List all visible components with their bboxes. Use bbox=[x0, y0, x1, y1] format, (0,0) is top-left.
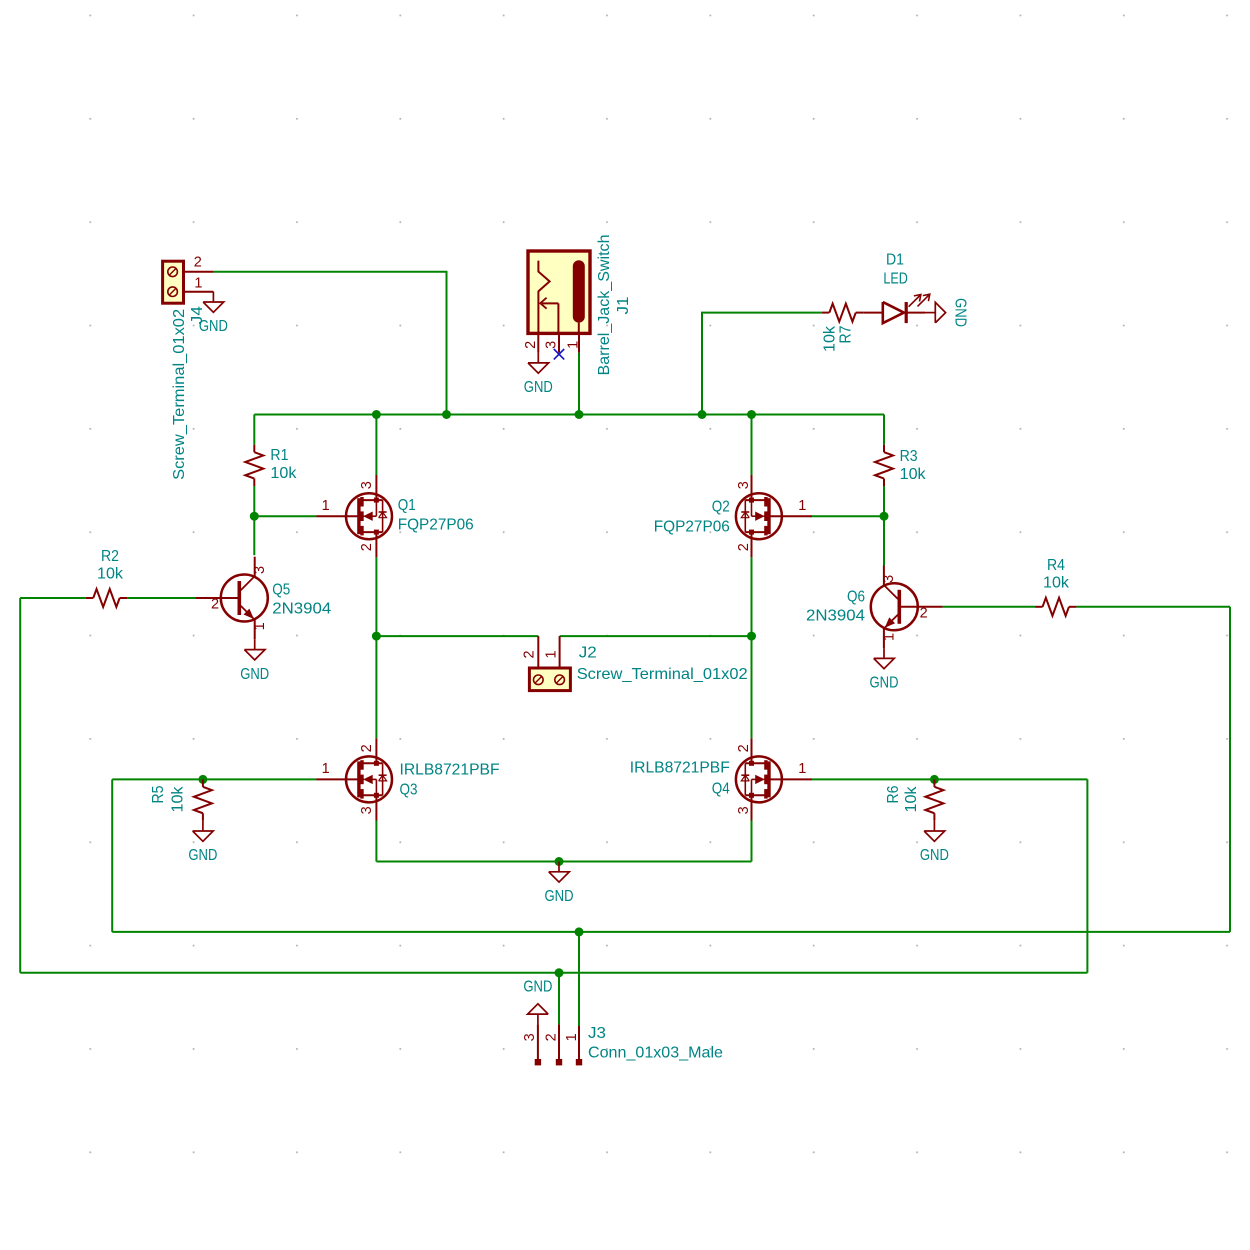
svg-text:R2: R2 bbox=[101, 548, 119, 565]
svg-text:2: 2 bbox=[523, 341, 539, 349]
junction right half-bridge/J2 pin1 bbox=[747, 632, 756, 641]
resistor R2 bbox=[86, 548, 127, 607]
svg-text:2N3904: 2N3904 bbox=[272, 601, 331, 618]
wire R4 to right edge bbox=[1076, 606, 1230, 608]
wire R3 to right gate node bbox=[883, 486, 885, 516]
svg-text:3: 3 bbox=[736, 806, 752, 814]
transistor Q3 IRLB8721PBF bbox=[316, 738, 392, 820]
junction R1/Q1 gate/Q5 collector bbox=[250, 512, 259, 521]
wire J2 pin1 to right mid node bbox=[560, 635, 752, 637]
svg-text:Conn_01x03_Male: Conn_01x03_Male bbox=[588, 1045, 723, 1062]
wire Q1 source to mid node bbox=[375, 557, 377, 636]
svg-text:2: 2 bbox=[211, 597, 219, 613]
svg-text:Q2: Q2 bbox=[712, 499, 730, 516]
wire J1 pin1 to bus bbox=[578, 353, 580, 415]
transistor Q6 2N3904 bbox=[871, 566, 943, 649]
resistor R7 bbox=[822, 304, 864, 352]
ground (J1) bbox=[528, 353, 549, 374]
svg-text:GND: GND bbox=[952, 298, 969, 327]
svg-text:3: 3 bbox=[359, 481, 375, 489]
wire Q6 base to R4 bbox=[943, 606, 1036, 608]
resistor R1 bbox=[245, 445, 297, 486]
junction bus/J4 feed bbox=[442, 410, 451, 419]
wire bus to Q2 drain bbox=[751, 415, 753, 476]
resistor R3 bbox=[875, 445, 927, 486]
svg-text:R6: R6 bbox=[885, 785, 902, 803]
svg-text:IRLB8721PBF: IRLB8721PBF bbox=[630, 760, 730, 777]
wire VCC top bus bbox=[254, 414, 884, 416]
svg-text:10k: 10k bbox=[822, 325, 839, 352]
svg-text:GND: GND bbox=[920, 847, 949, 864]
svg-text:10k: 10k bbox=[900, 466, 927, 483]
wire Q4 source to GND rail bbox=[751, 821, 753, 862]
svg-text:3: 3 bbox=[252, 566, 268, 574]
svg-text:GND: GND bbox=[545, 888, 574, 905]
svg-text:Q4: Q4 bbox=[712, 781, 730, 798]
ground (LED) bbox=[925, 302, 946, 323]
junction bus/Q1 drain bbox=[372, 410, 381, 419]
connector J2 Screw_Terminal_01x02 bbox=[522, 636, 748, 691]
svg-text:R4: R4 bbox=[1047, 557, 1065, 574]
svg-text:D1: D1 bbox=[886, 251, 904, 268]
svg-text:2: 2 bbox=[359, 543, 375, 551]
connector J1 Barrel_Jack_Switch bbox=[523, 235, 632, 376]
svg-text:1: 1 bbox=[322, 761, 330, 777]
svg-text:IRLB8721PBF: IRLB8721PBF bbox=[400, 762, 500, 779]
svg-text:LED: LED bbox=[883, 271, 908, 288]
svg-text:2: 2 bbox=[920, 605, 928, 621]
svg-text:10k: 10k bbox=[270, 465, 297, 482]
svg-text:FQP27P06: FQP27P06 bbox=[654, 519, 730, 536]
svg-text:2: 2 bbox=[194, 255, 202, 271]
svg-text:1: 1 bbox=[322, 498, 330, 514]
wire bus to R3 bbox=[883, 415, 885, 445]
wire Q2 source to right mid node bbox=[751, 557, 753, 636]
connector J3 Conn_01x03_Male bbox=[522, 1024, 723, 1065]
resistor R6 bbox=[885, 779, 943, 820]
svg-text:10k: 10k bbox=[169, 785, 186, 812]
transistor Q4 IRLB8721PBF bbox=[736, 738, 812, 820]
junction bus/LED branch bbox=[698, 410, 707, 419]
svg-text:GND: GND bbox=[523, 978, 552, 995]
wire Q3 source to GND rail bbox=[375, 821, 377, 862]
svg-text:Q5: Q5 bbox=[272, 582, 290, 599]
svg-text:FQP27P06: FQP27P06 bbox=[398, 517, 474, 534]
svg-text:2: 2 bbox=[736, 543, 752, 551]
svg-text:J1: J1 bbox=[615, 296, 632, 314]
svg-text:R7: R7 bbox=[838, 325, 855, 343]
svg-text:3: 3 bbox=[544, 341, 560, 349]
junction R6/Q4 gate bbox=[930, 775, 939, 784]
ground (rail) bbox=[549, 862, 570, 883]
ground (R6) bbox=[924, 821, 945, 842]
transistor Q1 FQP27P06 bbox=[316, 475, 392, 557]
svg-text:2: 2 bbox=[543, 1033, 559, 1041]
svg-text:2N3904: 2N3904 bbox=[806, 608, 865, 625]
svg-text:3: 3 bbox=[522, 1033, 538, 1041]
wire Q4 gate row bbox=[810, 778, 1087, 780]
junction J3 pin1 tap bbox=[575, 927, 584, 936]
junction R5/Q3 gate bbox=[198, 775, 207, 784]
wire bottom cross (to Q3 gate) bbox=[112, 931, 1230, 933]
svg-text:J3: J3 bbox=[588, 1025, 606, 1042]
wire Q5 collector to gate node bbox=[253, 516, 255, 555]
svg-text:2: 2 bbox=[736, 744, 752, 752]
diode D1 LED bbox=[863, 251, 930, 323]
wire bus to Q1 drain bbox=[375, 415, 377, 476]
ground (J4) bbox=[203, 292, 224, 313]
svg-text:10k: 10k bbox=[1043, 575, 1070, 592]
svg-text:GND: GND bbox=[870, 675, 899, 692]
svg-text:10k: 10k bbox=[903, 785, 920, 812]
svg-text:1: 1 bbox=[798, 498, 806, 514]
wire GND rail bbox=[376, 861, 751, 863]
svg-text:Q1: Q1 bbox=[398, 497, 416, 514]
junction GND rail bbox=[555, 857, 564, 866]
wire Q2 gate to right gate node bbox=[810, 515, 884, 517]
svg-text:2: 2 bbox=[522, 650, 538, 658]
svg-text:1: 1 bbox=[881, 633, 897, 641]
wire J4 pin2 to bus bbox=[213, 272, 446, 415]
svg-text:1: 1 bbox=[564, 1033, 580, 1041]
ground (Q6) bbox=[874, 648, 895, 669]
resistor R5 bbox=[150, 779, 212, 820]
wire riser to Q4 gate row bbox=[1086, 779, 1088, 972]
wire riser to Q3 gate row bbox=[111, 779, 113, 932]
wire right edge down bbox=[1229, 607, 1231, 932]
no-connect J1 pin3 bbox=[554, 349, 564, 359]
transistor Q2 FQP27P06 bbox=[736, 475, 812, 557]
svg-text:1: 1 bbox=[544, 650, 560, 658]
svg-text:10k: 10k bbox=[97, 566, 124, 583]
svg-text:R1: R1 bbox=[270, 447, 288, 464]
junction left half-bridge/J2 pin2 bbox=[372, 632, 381, 641]
junction R3/Q2 gate/Q6 collector bbox=[880, 512, 889, 521]
ground (R5) bbox=[193, 821, 214, 842]
ground (Q5) bbox=[244, 639, 265, 660]
wire J3 pin1 riser bbox=[578, 932, 580, 1026]
svg-text:Q3: Q3 bbox=[400, 782, 418, 799]
svg-text:GND: GND bbox=[188, 847, 217, 864]
svg-text:Screw_Terminal_01x02: Screw_Terminal_01x02 bbox=[577, 666, 748, 683]
resistor R4 bbox=[1035, 557, 1076, 616]
svg-text:GND: GND bbox=[240, 666, 269, 683]
junction bus/J1 pin1 bbox=[575, 410, 584, 419]
wire mid node to J2 pin2 bbox=[376, 635, 538, 637]
svg-text:R5: R5 bbox=[150, 785, 167, 803]
wire right mid node to Q4 drain bbox=[751, 636, 753, 738]
wire R2 to Q5 base bbox=[20, 597, 86, 599]
svg-text:3: 3 bbox=[736, 481, 752, 489]
wire mid node to Q3 drain bbox=[375, 636, 377, 738]
wire bus to R7/D1 branch bbox=[702, 313, 822, 415]
svg-text:GND: GND bbox=[199, 318, 228, 335]
ground (J3) bbox=[528, 1004, 549, 1025]
connector J4 Screw_Terminal_01x02 bbox=[163, 255, 214, 480]
wire R1 to gate node bbox=[253, 486, 255, 516]
svg-text:3: 3 bbox=[881, 575, 897, 583]
wire Q6 collector to right gate node bbox=[883, 516, 885, 565]
svg-text:Q6: Q6 bbox=[847, 589, 865, 606]
wire bottom cross (to Q4 gate) bbox=[20, 972, 1087, 974]
svg-text:Barrel_Jack_Switch: Barrel_Jack_Switch bbox=[596, 235, 613, 376]
junction J3 pin2 tap bbox=[555, 968, 564, 977]
transistor Q5 2N3904 bbox=[196, 557, 268, 640]
svg-text:GND: GND bbox=[524, 379, 553, 396]
svg-text:1: 1 bbox=[194, 276, 202, 292]
svg-text:Screw_Terminal_01x02: Screw_Terminal_01x02 bbox=[171, 309, 188, 480]
svg-text:1: 1 bbox=[566, 341, 582, 349]
junction bus/Q2 drain bbox=[747, 410, 756, 419]
wire left edge down bbox=[19, 598, 21, 973]
svg-text:2: 2 bbox=[359, 744, 375, 752]
svg-text:J2: J2 bbox=[579, 644, 597, 661]
wire J3 pin2 riser bbox=[558, 973, 560, 1025]
svg-text:1: 1 bbox=[252, 622, 268, 630]
wire gate node to Q1 gate bbox=[254, 515, 316, 517]
svg-text:1: 1 bbox=[798, 761, 806, 777]
svg-text:3: 3 bbox=[359, 806, 375, 814]
wire bus to R1 bbox=[253, 415, 255, 445]
svg-text:R3: R3 bbox=[900, 448, 918, 465]
wire Q3 gate row bbox=[112, 778, 316, 780]
